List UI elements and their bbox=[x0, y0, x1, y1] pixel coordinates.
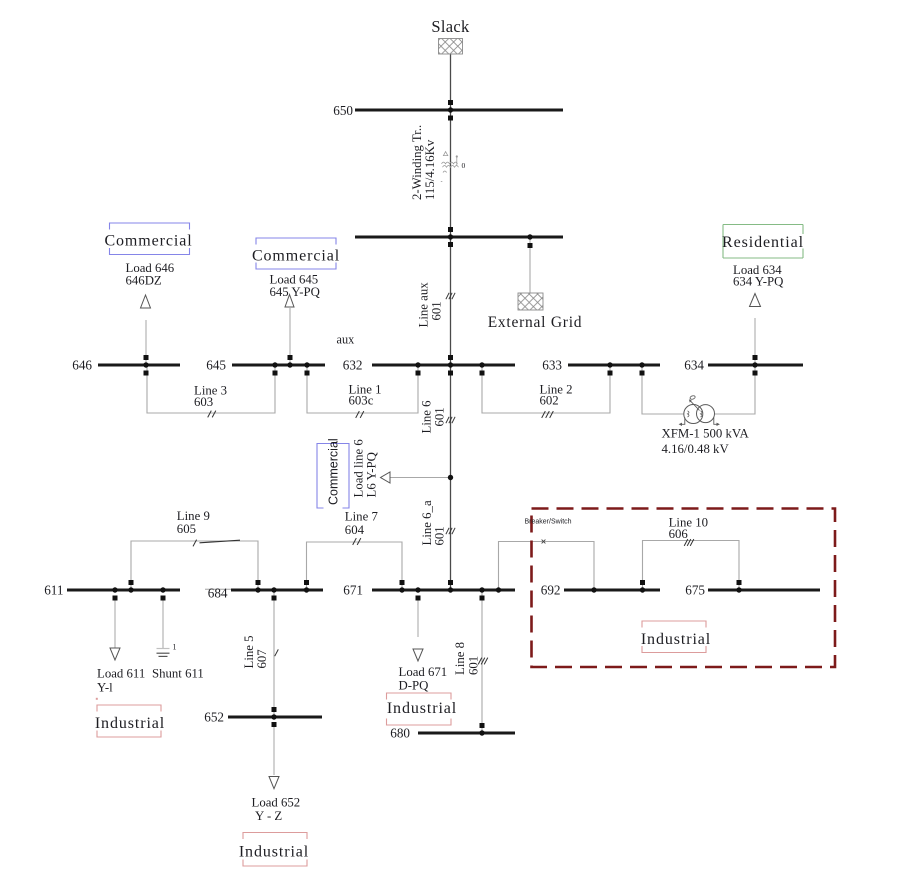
bus 645 bbox=[232, 364, 325, 367]
svg-text:645 Y-PQ: 645 Y-PQ bbox=[270, 285, 321, 299]
load line 6 arrow bbox=[381, 472, 391, 483]
svg-text:Slack: Slack bbox=[431, 17, 470, 36]
zone mark industrial 611 bbox=[96, 698, 98, 700]
svg-text:645: 645 bbox=[206, 358, 226, 373]
wire load 611 drop bbox=[114, 597, 116, 649]
svg-text:L6 Y-PQ: L6 Y-PQ bbox=[365, 451, 379, 497]
label box commercial 645 bbox=[256, 238, 336, 269]
slash line 9 bbox=[193, 540, 197, 547]
bus 611 bbox=[67, 589, 180, 592]
bus 684 stub bbox=[205, 588, 232, 590]
wire load line 6 branch bbox=[390, 477, 451, 479]
terminal squares bus 611 bbox=[113, 580, 166, 601]
wire line 8 671-680 bbox=[481, 590, 483, 733]
label box industrial 611 bbox=[97, 705, 161, 737]
svg-text:Load 652: Load 652 bbox=[252, 796, 301, 810]
svg-text:606: 606 bbox=[669, 527, 689, 541]
svg-text:Line 7: Line 7 bbox=[345, 510, 379, 524]
svg-text:Commercial: Commercial bbox=[327, 438, 341, 505]
svg-text:601: 601 bbox=[433, 407, 447, 426]
bus 652 bbox=[228, 716, 322, 719]
bus 684 bbox=[231, 589, 323, 592]
transformer XFM-1 symbol bbox=[679, 395, 720, 426]
wire load 652 drop bbox=[273, 724, 275, 775]
load 652 arrow bbox=[269, 777, 279, 789]
svg-text:633: 633 bbox=[542, 358, 562, 373]
svg-text:604: 604 bbox=[345, 523, 365, 537]
bus 680 bbox=[418, 732, 515, 735]
svg-text:652: 652 bbox=[204, 710, 224, 725]
wire XFM-1 633-634 bbox=[642, 365, 684, 414]
slashes line 10 bbox=[684, 539, 694, 546]
wire line 7 684-671 bbox=[307, 542, 403, 590]
wire transformer feeder 650 to aux bus bbox=[450, 110, 452, 237]
external grid symbol bbox=[518, 293, 543, 310]
terminal squares bus 632 bbox=[416, 355, 485, 376]
bus 633 bbox=[568, 364, 660, 367]
terminal squares aux bus bbox=[448, 227, 533, 248]
svg-text:0: 0 bbox=[462, 161, 466, 170]
svg-text:Residential: Residential bbox=[722, 234, 804, 251]
svg-text:601: 601 bbox=[430, 301, 444, 320]
svg-text:Line 5: Line 5 bbox=[242, 635, 256, 668]
svg-text:601: 601 bbox=[433, 526, 447, 545]
wire load 645 drop bbox=[289, 308, 291, 365]
svg-text:1: 1 bbox=[173, 643, 177, 652]
svg-text:603c: 603c bbox=[349, 394, 374, 408]
wire shunt 611 drop bbox=[162, 597, 164, 648]
svg-text:Breaker/Switch: Breaker/Switch bbox=[525, 519, 572, 526]
svg-text:Line 6: Line 6 bbox=[420, 400, 434, 434]
load 671 arrow bbox=[413, 649, 423, 661]
svg-text:Industrial: Industrial bbox=[239, 844, 309, 861]
wire line 5 684-652 bbox=[273, 590, 275, 717]
svg-text:4.16/0.48 kV: 4.16/0.48 kV bbox=[662, 442, 730, 456]
svg-text:Line 8: Line 8 bbox=[453, 642, 467, 675]
label box commercial line 6 rotated bbox=[317, 444, 349, 509]
svg-text:603: 603 bbox=[194, 395, 213, 409]
wire load 646 drop bbox=[145, 320, 147, 365]
label box industrial 692-675 bbox=[642, 621, 706, 653]
terminal squares bus 634 bbox=[753, 355, 758, 376]
wire main feeder aux bus to bus 671 bbox=[450, 237, 452, 590]
label box residential 634 bbox=[723, 225, 803, 259]
svg-text:602: 602 bbox=[540, 394, 559, 408]
wire external grid drop bbox=[529, 237, 531, 293]
svg-text:634 Y-PQ: 634 Y-PQ bbox=[733, 275, 784, 289]
svg-text:Load line 6: Load line 6 bbox=[352, 439, 366, 498]
terminal squares bus 650 bbox=[448, 100, 453, 121]
svg-text:XFM-1 500 kVA: XFM-1 500 kVA bbox=[662, 426, 750, 440]
breaker x marker bbox=[542, 540, 546, 544]
wire breaker/switch 671-692 bbox=[499, 542, 595, 591]
bus 650 bbox=[355, 109, 563, 112]
svg-text:Y-l: Y-l bbox=[97, 681, 113, 695]
svg-text:692: 692 bbox=[541, 583, 561, 598]
svg-text:632: 632 bbox=[343, 358, 363, 373]
svg-text:601: 601 bbox=[467, 656, 481, 675]
svg-text:Load 611: Load 611 bbox=[97, 667, 145, 681]
svg-text:External Grid: External Grid bbox=[488, 314, 583, 331]
external grid slack symbol bbox=[439, 39, 463, 55]
slashes line 6_a bbox=[446, 528, 455, 534]
svg-text:D-PQ: D-PQ bbox=[399, 679, 430, 693]
svg-text:675: 675 bbox=[685, 583, 705, 598]
wire load 634 drop bbox=[754, 318, 756, 365]
load 646 arrow bbox=[141, 295, 151, 308]
svg-text:Y - Z: Y - Z bbox=[255, 809, 282, 823]
svg-text:684: 684 bbox=[208, 586, 228, 601]
svg-text:Shunt 611: Shunt 611 bbox=[152, 667, 204, 681]
svg-text:680: 680 bbox=[390, 726, 410, 741]
slashes line aux bbox=[446, 293, 455, 299]
label box industrial 652 bbox=[243, 833, 307, 867]
zone box industrial dashed bbox=[532, 509, 836, 668]
terminal squares bus 645 bbox=[273, 355, 310, 376]
svg-text:634: 634 bbox=[684, 358, 704, 373]
svg-text:Commercial: Commercial bbox=[252, 248, 340, 265]
svg-text:Line aux: Line aux bbox=[417, 282, 431, 328]
load 611 arrow bbox=[110, 648, 120, 660]
slashes line 2 bbox=[542, 411, 554, 418]
wire line 3 646-645 bbox=[147, 365, 275, 413]
terminal squares bus 652 bbox=[272, 707, 277, 727]
svg-text:650: 650 bbox=[333, 103, 353, 118]
slashes line 1 bbox=[356, 411, 364, 418]
svg-text:Commercial: Commercial bbox=[104, 233, 192, 250]
terminal squares bus 646 bbox=[144, 355, 149, 376]
load 634 arrow bbox=[750, 294, 761, 307]
svg-text:Industrial: Industrial bbox=[95, 715, 165, 732]
bus 671 bbox=[372, 589, 515, 592]
wire line 9 611-684 bbox=[131, 541, 258, 590]
slashes line 3 bbox=[208, 411, 216, 418]
slashes line 7 bbox=[353, 538, 361, 545]
svg-text:646DZ: 646DZ bbox=[126, 274, 162, 288]
slashes line 8 bbox=[478, 658, 488, 665]
svg-text:Line 9: Line 9 bbox=[177, 509, 210, 523]
slash line 5 bbox=[275, 649, 279, 656]
terminal square bus 680 bbox=[480, 723, 485, 728]
bus 692 bbox=[564, 589, 660, 592]
svg-text:611: 611 bbox=[44, 583, 63, 598]
bus 634 bbox=[708, 364, 803, 367]
terminal squares bus 671 bbox=[400, 580, 485, 601]
wire line 1 632-645 bbox=[307, 365, 418, 413]
slashes line 6 bbox=[446, 417, 455, 423]
svg-text:646: 646 bbox=[72, 358, 92, 373]
terminal squares bus 684 bbox=[256, 580, 310, 601]
node aux bus bbox=[355, 236, 563, 239]
svg-text:Industrial: Industrial bbox=[641, 631, 711, 648]
svg-text:aux: aux bbox=[337, 333, 355, 347]
bus 675 bbox=[708, 589, 820, 592]
switch on line 9 bbox=[200, 540, 241, 543]
svg-text:115/4.16Kv: 115/4.16Kv bbox=[423, 139, 437, 200]
svg-text:Industrial: Industrial bbox=[387, 700, 457, 717]
svg-text:607: 607 bbox=[255, 649, 269, 669]
transformer 2-winding symbol bbox=[441, 152, 459, 182]
svg-text:605: 605 bbox=[177, 522, 196, 536]
wire slack to bus 650 bbox=[450, 54, 452, 110]
wire load 671 drop bbox=[417, 597, 419, 637]
svg-text:671: 671 bbox=[343, 583, 363, 598]
load 645 arrow bbox=[285, 295, 294, 308]
terminal square bus 692 bbox=[640, 580, 645, 585]
bus 646 bbox=[98, 364, 180, 367]
wire line 10 692-675 bbox=[643, 541, 740, 591]
terminal squares bus 633 bbox=[608, 371, 645, 376]
svg-text:Load 671: Load 671 bbox=[399, 665, 448, 679]
terminal square bus 675 bbox=[737, 580, 742, 585]
shunt 611 capacitor symbol bbox=[157, 649, 170, 657]
bus 632 bbox=[372, 364, 515, 367]
svg-text:2-Winding Tr..: 2-Winding Tr.. bbox=[410, 125, 424, 200]
label box industrial 671 bbox=[387, 693, 452, 725]
wire line 2 632-633 bbox=[482, 365, 610, 413]
label box commercial 646 bbox=[110, 223, 190, 255]
